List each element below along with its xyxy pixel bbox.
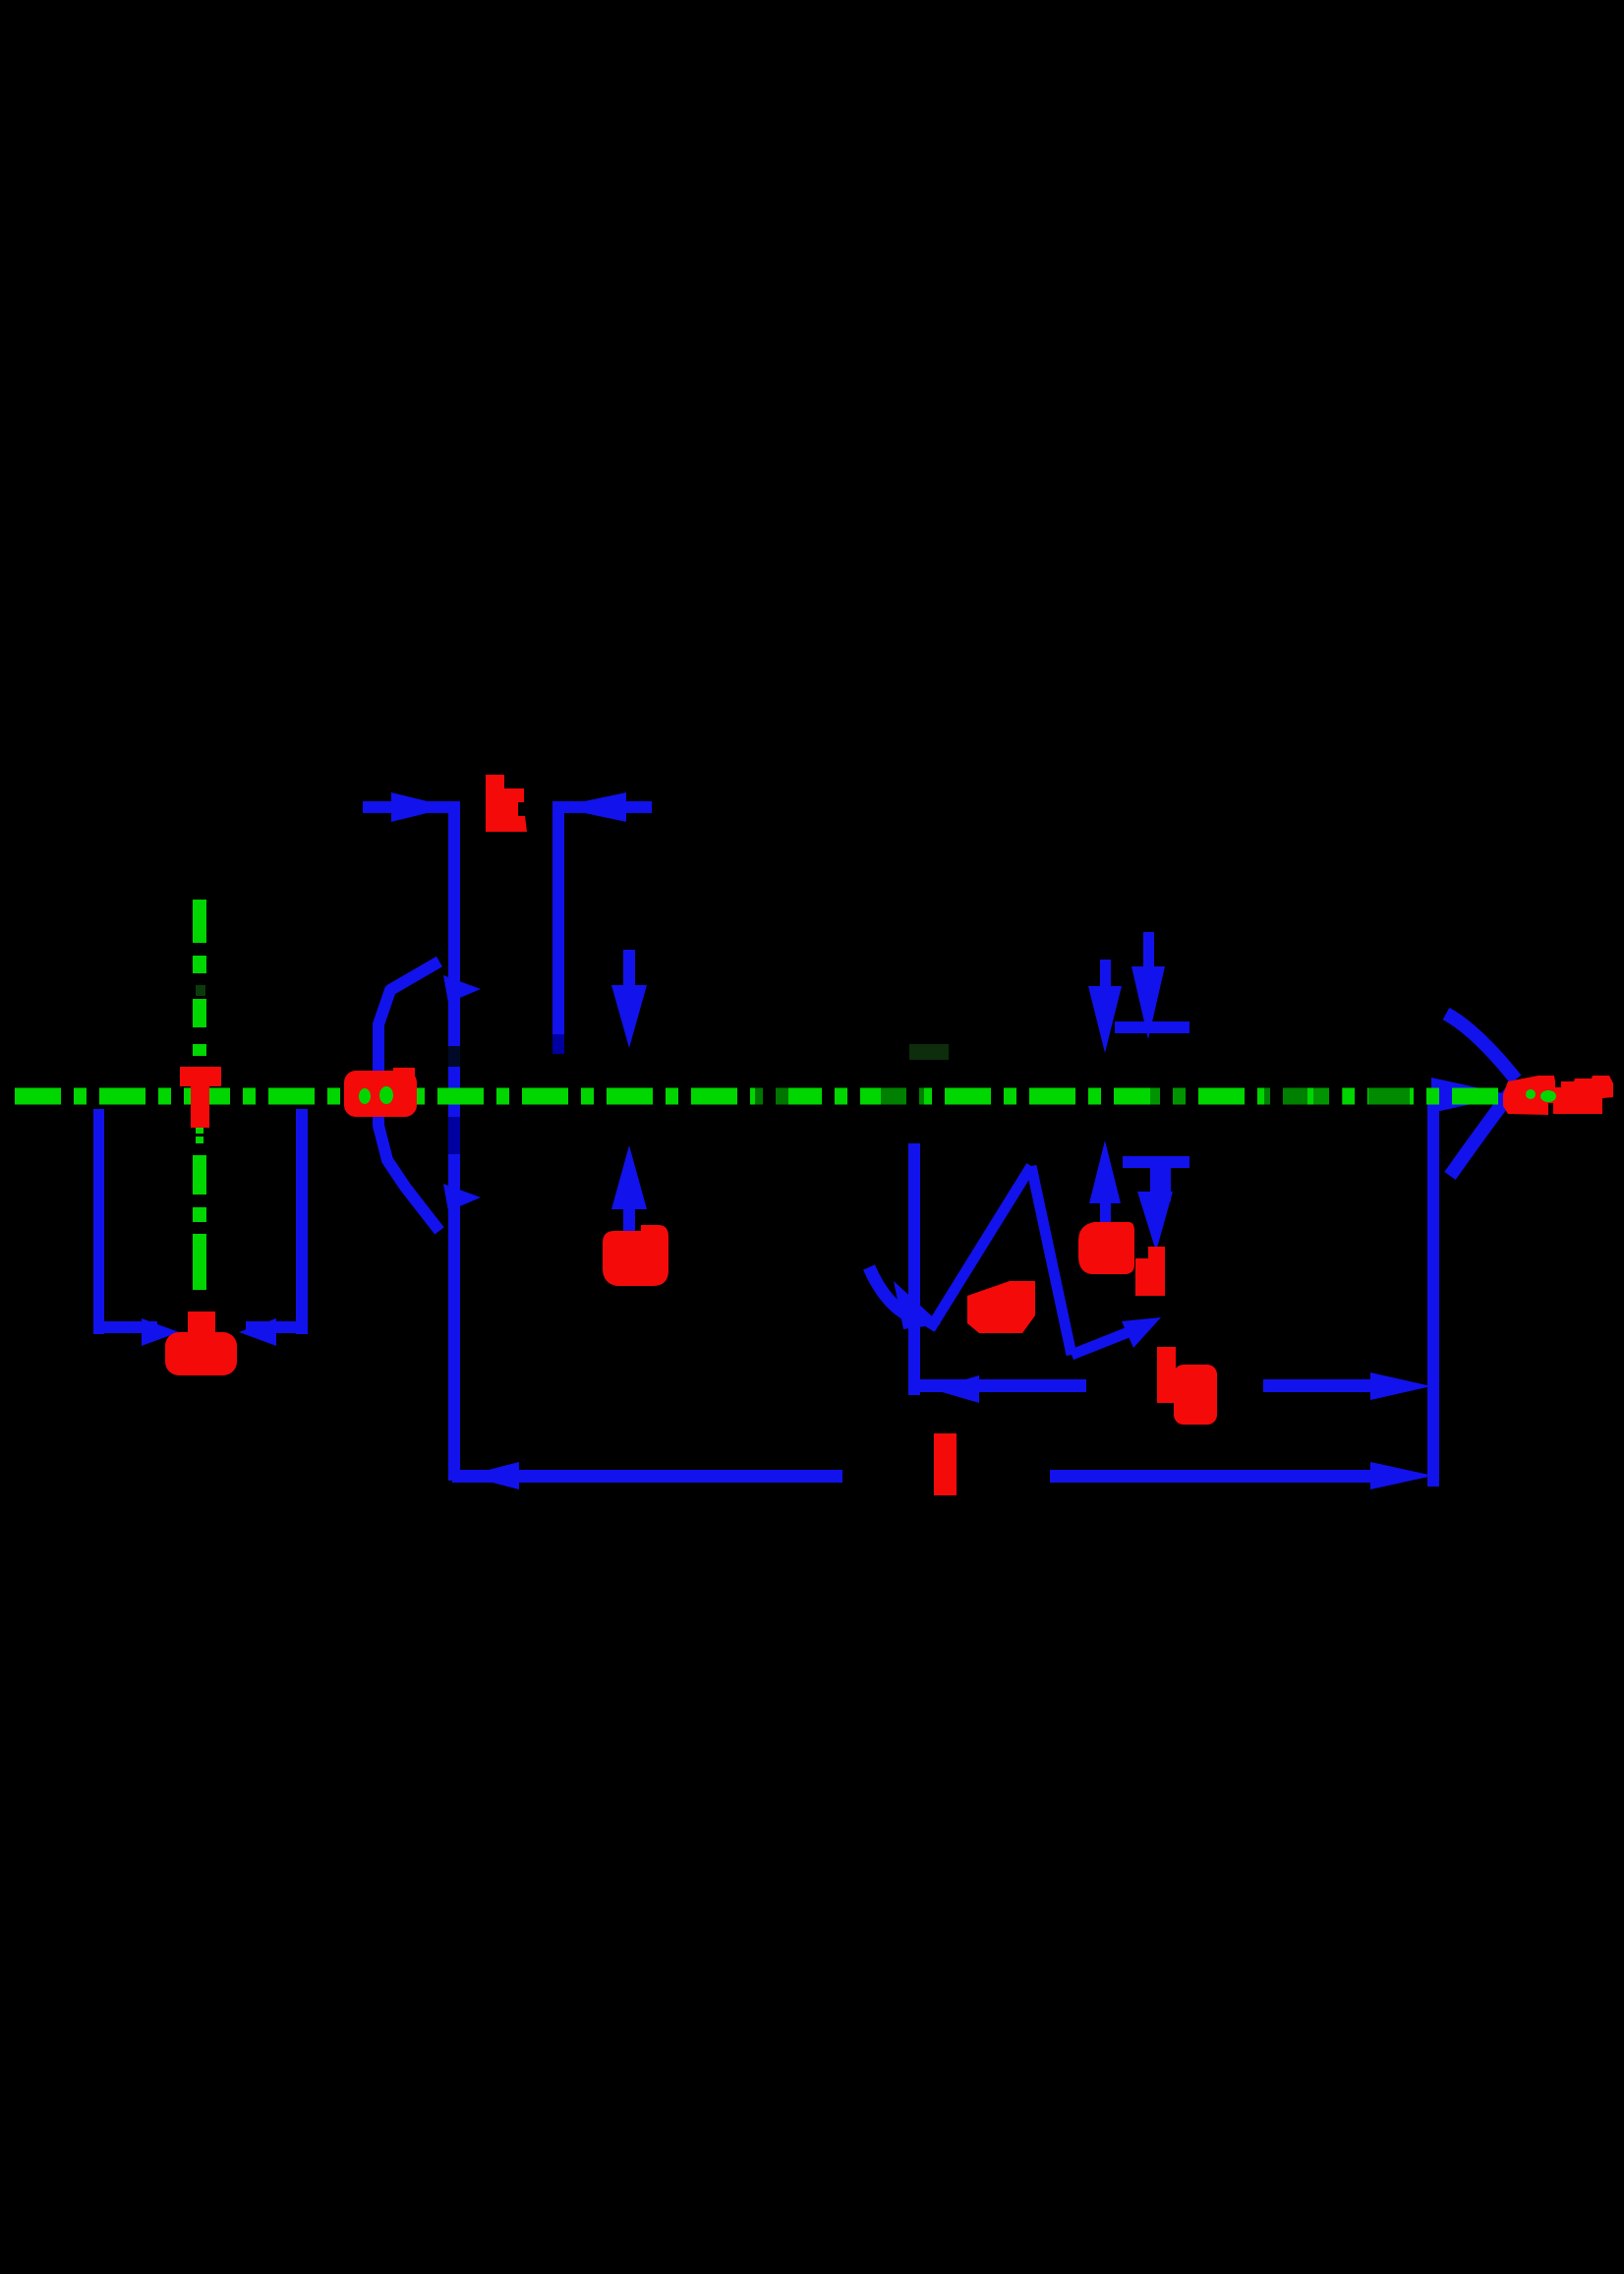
shaft axis centerline (green dash-dot) — [15, 1088, 1526, 1105]
dimmed dash patches on axis — [755, 1087, 788, 1105]
length label l — [934, 1433, 957, 1495]
zigzag segment 2 — [1031, 1166, 1072, 1355]
curved arrow H — [869, 1267, 912, 1317]
arrow G pointing left along line at y=1410 — [914, 1379, 1086, 1392]
output chevron R upper leg — [1446, 1014, 1516, 1079]
bracket below T: right vertical — [296, 1109, 308, 1334]
wire: long vertical reference line A (left end of dimension l) — [448, 801, 460, 1481]
black gap in output label — [1555, 1075, 1561, 1087]
output chevron R lower leg — [1450, 1085, 1516, 1176]
wire: mid vertical line F — [908, 1143, 920, 1395]
green holes in output label — [1526, 1089, 1536, 1099]
faint smudge above axis — [909, 1044, 949, 1060]
arrow P pointing right at y=1410 — [1263, 1379, 1371, 1392]
tick M below axis with right drop — [1123, 1156, 1189, 1168]
dimension l right arrow — [1050, 1470, 1374, 1483]
output label (right red text) — [1503, 1076, 1613, 1115]
green holes of omega glyph — [359, 1088, 371, 1104]
dark notches on line A near axis — [448, 1046, 460, 1067]
bracket below T: left vertical — [93, 1109, 104, 1334]
down arrow N onto label — [1150, 1168, 1162, 1195]
down arrow C onto shaft (left pair, above axis) — [623, 950, 635, 989]
angular velocity label omega (on shaft) — [344, 1071, 417, 1117]
zigzag segment 1 — [930, 1166, 1031, 1329]
dimension k right arrow — [557, 801, 652, 813]
label phi-1 at zigzag — [967, 1281, 1035, 1333]
wire: short vertical reference line B (right side of dimension k) — [552, 801, 564, 1034]
angle label under bracket — [188, 1312, 215, 1333]
vertical centerline through T: dash segments — [193, 900, 206, 943]
wire: right vertical line O — [1427, 1102, 1439, 1487]
down arrow J (right pair, above axis, right) — [1143, 932, 1154, 969]
label subscript block — [1148, 1247, 1165, 1296]
down arrow I (right pair, above axis, left) — [1100, 960, 1111, 989]
output axis arrow S — [1431, 1078, 1512, 1113]
dimension l left arrow — [452, 1470, 521, 1483]
dimension k left arrow — [363, 801, 449, 813]
bracket bottom right arrow — [246, 1321, 303, 1333]
rotation arc top arrowhead — [443, 975, 481, 1003]
inertia label below arrows C/D — [603, 1225, 668, 1286]
label b — [1157, 1347, 1176, 1403]
tick K above axis — [1115, 1021, 1189, 1033]
stiffness label k — [486, 775, 527, 832]
up arrow D onto shaft (left pair, below axis) — [611, 1145, 647, 1209]
zigzag segment 3 with arrowhead — [1072, 1332, 1129, 1355]
torque label T — [180, 1067, 221, 1086]
label omega-2 — [1078, 1222, 1134, 1274]
up arrow L (below axis) — [1089, 1140, 1121, 1203]
rotation arc bottom arrowhead — [443, 1184, 481, 1211]
rotation arc around shaft at line A — [378, 962, 439, 1231]
bracket bottom left arrow — [98, 1321, 157, 1333]
